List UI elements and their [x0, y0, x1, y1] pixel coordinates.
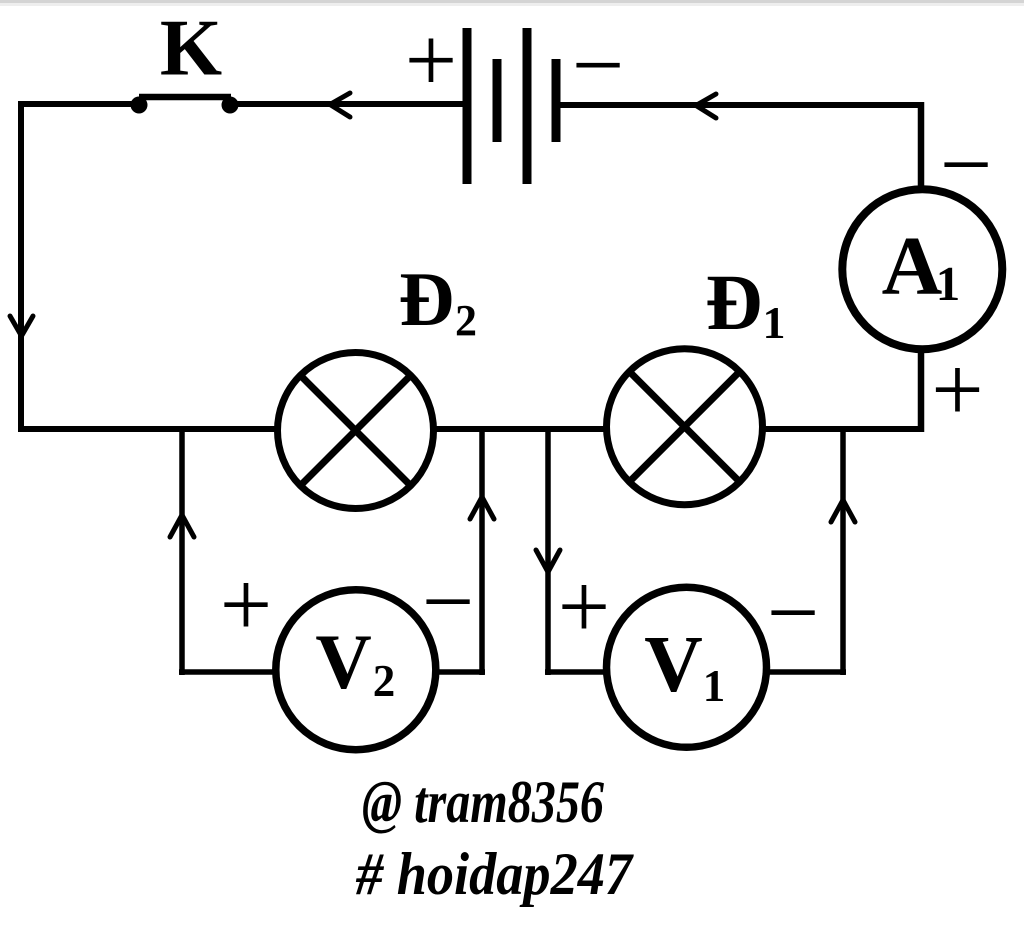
svg-text:−: −	[767, 562, 819, 665]
svg-text:−: −	[572, 14, 624, 117]
wire: right vertical above ammeter	[918, 102, 925, 190]
svg-text:1: 1	[703, 661, 726, 711]
voltmeter V2 circle	[276, 590, 436, 750]
switch K bridge bar	[139, 94, 231, 101]
ammeter A1 circle	[842, 189, 1002, 349]
current arrow on top wire (right)	[696, 94, 716, 118]
arrow on V2 right drop (up)	[470, 497, 494, 519]
wire: middle horizontal rail	[18, 426, 924, 432]
wire: V1 left drop (x=548)	[545, 429, 551, 675]
battery cell plate: long positive 2	[523, 28, 532, 184]
voltmeter V1 circle	[607, 587, 767, 747]
switch K right contact dot	[222, 97, 239, 114]
svg-text:2: 2	[455, 296, 477, 345]
lamp D2 circle	[278, 353, 434, 509]
wire: left vertical side	[18, 101, 24, 432]
svg-text:@ tram8356: @ tram8356	[362, 769, 604, 835]
svg-text:−: −	[422, 551, 474, 654]
wire: battery negative to top-right corner	[559, 102, 924, 108]
svg-text:1: 1	[763, 297, 786, 348]
current arrow on left vertical (down)	[10, 316, 33, 336]
svg-text:# hoidap247: # hoidap247	[355, 841, 634, 907]
svg-text:+: +	[931, 339, 983, 442]
battery cell plate: long positive 1	[463, 28, 472, 184]
arrow on V2 left drop (up)	[170, 515, 194, 537]
wire: V2 bottom link	[179, 669, 485, 675]
svg-text:+: +	[405, 9, 457, 112]
wire: switch to battery positive plate	[228, 101, 464, 107]
svg-text:+: +	[558, 556, 610, 659]
switch K left contact dot	[131, 97, 148, 114]
svg-text:A: A	[882, 220, 943, 313]
wire: top-left horizontal (switch to left corner)	[21, 101, 141, 107]
lamp D1 circle	[607, 349, 763, 505]
battery cell plate: short negative 1	[493, 59, 502, 142]
svg-text:+: +	[220, 554, 272, 657]
lamp D2 cross stroke 2	[299, 374, 412, 487]
battery cell plate: short negative 2	[552, 59, 561, 142]
current arrow on top wire (left)	[330, 93, 350, 117]
wire: V1 bottom link	[545, 669, 846, 675]
svg-text:1: 1	[936, 256, 961, 311]
svg-text:V: V	[644, 619, 703, 709]
wire: V2 right drop (x=482)	[479, 429, 485, 675]
svg-text:K: K	[160, 5, 222, 93]
svg-text:Đ: Đ	[399, 256, 455, 342]
svg-text:2: 2	[373, 656, 396, 706]
lamp D1 cross stroke 2	[628, 370, 741, 483]
arrow on V1 left drop (down)	[536, 550, 560, 572]
svg-text:Đ: Đ	[705, 260, 762, 347]
wire: V2 left drop (x=182)	[179, 429, 185, 675]
lamp D2 cross stroke 1	[299, 374, 412, 487]
wire: V1 right drop (x=843)	[840, 429, 846, 675]
lamp D1 cross stroke 1	[628, 370, 741, 483]
arrow on V1 right drop (up)	[831, 500, 855, 522]
wire: right vertical below ammeter	[918, 348, 925, 432]
svg-text:V: V	[315, 618, 371, 705]
top border band	[0, 0, 1024, 3]
svg-text:−: −	[940, 114, 992, 217]
